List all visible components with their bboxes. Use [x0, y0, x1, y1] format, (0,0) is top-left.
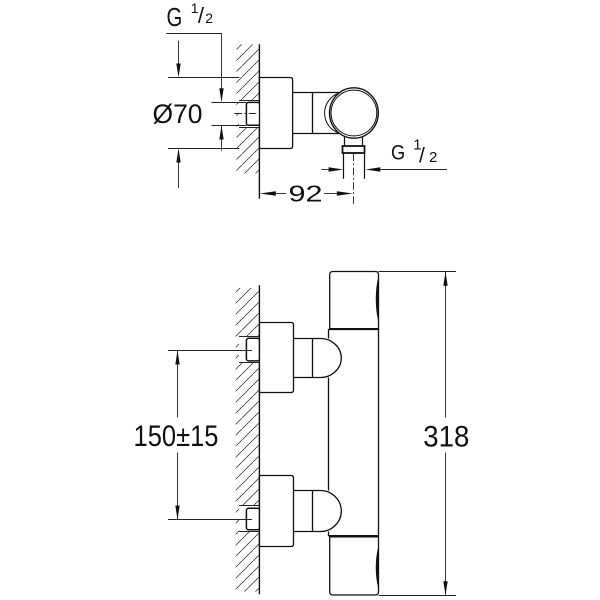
Ø70 upper arrow [176, 41, 180, 78]
bottom end cap [330, 536, 379, 595]
svg-text:2: 2 [205, 10, 213, 26]
wall face line (top view) [258, 44, 260, 198]
mixer bar tube [329, 329, 379, 536]
thermostat top cap [330, 272, 379, 330]
top supply nipple [246, 338, 259, 361]
body joint line [312, 93, 314, 134]
svg-text:92: 92 [289, 181, 323, 207]
nipple centerline (top view) [235, 113, 259, 115]
G1/2 outlet right arrow with leader [366, 167, 447, 171]
svg-text:G: G [391, 141, 405, 164]
wall clearance hole (top view) [239, 100, 259, 128]
bottom supply nipple [246, 508, 259, 530]
svg-text:Ø70: Ø70 [153, 99, 203, 129]
G1/2 lower arrow [219, 126, 223, 151]
svg-text:/: / [198, 3, 205, 28]
handle knob outer circle [330, 88, 379, 138]
wall hatch band (bottom view) [236, 288, 259, 592]
dimension 92 [260, 181, 353, 207]
dimension G1/2 (top label) [167, 0, 214, 32]
body end-cap arc behind knob [325, 93, 340, 133]
valve body cylinder (top view) [293, 93, 341, 134]
G1/2 leader line [166, 34, 221, 101]
top union escutcheon [260, 323, 294, 393]
G1/2 extension lines [212, 103, 247, 126]
bottom union nut and dome [294, 491, 342, 532]
dimension 318 [379, 272, 470, 596]
wall hole top union [239, 336, 259, 363]
dimension 150±15 [134, 351, 253, 520]
outlet neck [345, 137, 363, 146]
wall hatch band (top view) [236, 44, 259, 173]
handle knob inner circle [331, 90, 377, 136]
svg-text:2: 2 [429, 149, 437, 166]
supply nipple behind wall (top view) [246, 102, 259, 125]
outlet collar nut [343, 146, 365, 153]
bottom union escutcheon [260, 476, 294, 547]
Ø70 lower arrow [176, 149, 180, 189]
svg-text:318: 318 [423, 421, 469, 454]
Ø70 extension lines [168, 78, 239, 149]
svg-text:150±15: 150±15 [134, 420, 219, 453]
top cap inner shading [376, 278, 378, 321]
svg-text:/: / [419, 144, 425, 167]
top cap joint line [329, 328, 378, 330]
outlet pipe stub [344, 153, 365, 179]
G1/2 upper arrow [219, 88, 223, 102]
top union nut and dome [294, 339, 342, 378]
G1/2 outlet left arrow [322, 167, 344, 171]
bottom cap joint line [329, 535, 378, 537]
dimension G1/2 (outlet label) [391, 136, 437, 167]
wall face line (bottom view) [258, 285, 260, 594]
outlet pipe centerline [353, 154, 355, 205]
escutcheon (top view) [260, 78, 293, 149]
svg-text:G: G [167, 2, 183, 32]
bottom cap inner shading [376, 548, 378, 588]
wall hole bottom union [239, 505, 259, 532]
